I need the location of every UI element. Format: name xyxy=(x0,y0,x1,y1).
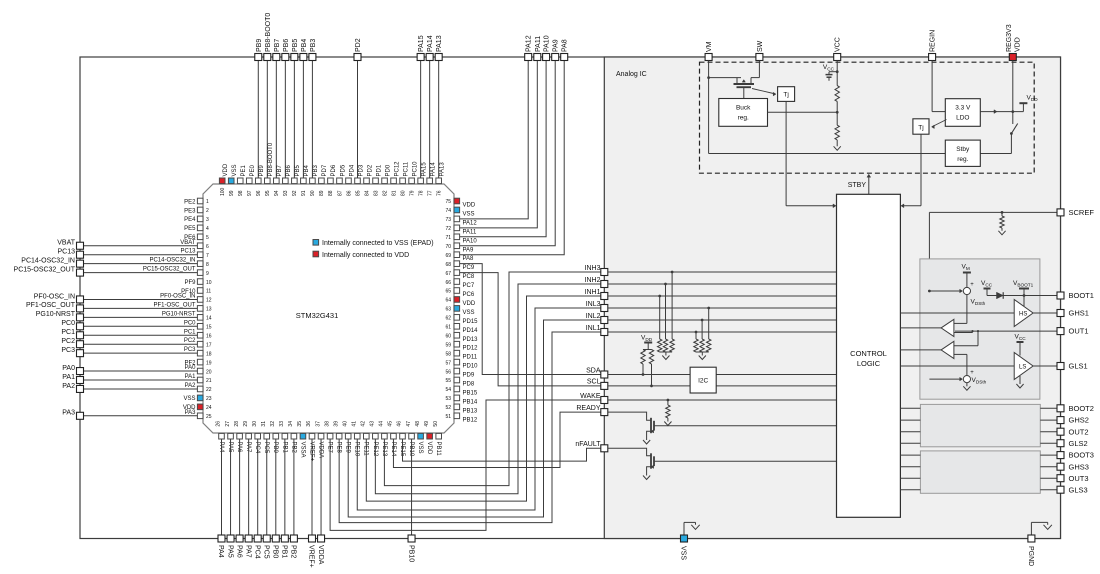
svg-text:88: 88 xyxy=(328,190,334,196)
svg-text:HS: HS xyxy=(1019,311,1027,317)
svg-text:PD2: PD2 xyxy=(367,164,373,176)
wire PC3 xyxy=(84,352,198,354)
svg-text:+: + xyxy=(970,282,974,288)
svg-text:60: 60 xyxy=(445,333,451,339)
svg-text:51: 51 xyxy=(445,414,451,420)
terminal PA6 bottom xyxy=(236,535,243,542)
terminal VDDA bottom xyxy=(318,535,325,542)
CONTROL LOGIC block xyxy=(837,194,901,517)
svg-text:VBAT: VBAT xyxy=(57,240,75,247)
svg-text:PG10-NRST: PG10-NRST xyxy=(36,311,76,318)
terminal READY xyxy=(601,409,608,416)
svg-text:PE7: PE7 xyxy=(327,442,333,454)
svg-text:86: 86 xyxy=(346,190,352,196)
svg-text:26: 26 xyxy=(216,421,222,427)
svg-text:PA14: PA14 xyxy=(430,162,436,177)
wire buck feedback xyxy=(768,111,838,113)
svg-text:reg.: reg. xyxy=(957,156,968,163)
svg-text:PC2: PC2 xyxy=(184,338,196,344)
svg-text:49: 49 xyxy=(424,421,430,427)
wire GLS1 xyxy=(1033,365,1057,367)
terminal PC13 left xyxy=(77,251,84,258)
svg-text:81: 81 xyxy=(391,190,397,196)
svg-text:nFAULT: nFAULT xyxy=(575,441,601,448)
wire WAKE internal xyxy=(608,399,837,401)
terminal REG3V3 VDD xyxy=(1009,54,1016,61)
svg-text:3.3 V: 3.3 V xyxy=(955,105,971,112)
terminal INH3 xyxy=(601,269,608,276)
svg-text:PE1: PE1 xyxy=(241,164,247,176)
svg-text:17: 17 xyxy=(206,342,212,348)
thermal sensor Tj1 xyxy=(778,87,795,102)
terminal PA10 top xyxy=(543,54,550,61)
resistor SCREF xyxy=(1001,211,1004,214)
svg-text:PB10: PB10 xyxy=(407,545,414,562)
svg-text:PB8-BOOT0: PB8-BOOT0 xyxy=(268,142,274,176)
wire PA6 riser xyxy=(239,439,241,535)
terminal OUT1 xyxy=(1057,328,1064,335)
svg-text:READY: READY xyxy=(576,405,600,412)
terminal PC2 left xyxy=(77,341,84,348)
svg-text:PE3: PE3 xyxy=(184,208,196,214)
svg-text:94: 94 xyxy=(274,190,280,196)
svg-text:Buck: Buck xyxy=(736,105,751,112)
svg-text:36: 36 xyxy=(306,421,312,427)
wire SCREF net xyxy=(929,211,1057,213)
wire PA9 route xyxy=(460,61,555,246)
terminal PB0 bottom xyxy=(272,535,279,542)
svg-text:38: 38 xyxy=(324,421,330,427)
comparator LS VDS monitor xyxy=(941,341,954,358)
svg-text:PA2: PA2 xyxy=(62,383,75,390)
svg-text:STBY: STBY xyxy=(848,182,867,189)
svg-text:PD5: PD5 xyxy=(340,164,346,176)
svg-text:PB0: PB0 xyxy=(272,545,279,558)
terminal OUT3 xyxy=(1057,475,1064,482)
svg-text:90: 90 xyxy=(310,190,316,196)
svg-text:PB10: PB10 xyxy=(408,442,414,457)
wire READY route xyxy=(393,412,600,467)
driver LS xyxy=(1014,353,1033,380)
terminal GHS2 xyxy=(1057,417,1064,424)
wire GHS2 to terminal xyxy=(1040,419,1057,421)
wire OUT2 to terminal xyxy=(1040,431,1057,433)
svg-text:PC7: PC7 xyxy=(463,283,475,289)
svg-text:42: 42 xyxy=(361,421,367,427)
svg-text:14: 14 xyxy=(206,316,212,322)
terminal GHS3 xyxy=(1057,463,1064,470)
terminal PGND xyxy=(1030,522,1032,535)
svg-text:VSS: VSS xyxy=(183,396,195,402)
svg-text:Tj: Tj xyxy=(783,92,788,99)
svg-text:PD15: PD15 xyxy=(463,319,479,325)
resistor VCC divider lower xyxy=(835,125,839,140)
wire SDA from PC9 xyxy=(460,264,601,375)
current source VDSth low xyxy=(963,376,970,383)
svg-text:VDD: VDD xyxy=(1015,37,1022,52)
svg-text:LOGIC: LOGIC xyxy=(857,359,881,368)
svg-text:27: 27 xyxy=(225,421,231,427)
terminal PA7 bottom xyxy=(245,535,252,542)
terminal REGIN xyxy=(929,54,936,61)
svg-text:PA11: PA11 xyxy=(463,229,477,235)
svg-text:PA13: PA13 xyxy=(436,35,443,52)
svg-text:PA6: PA6 xyxy=(236,442,242,454)
svg-text:72: 72 xyxy=(445,226,451,232)
arrow mosfet to Tj1 xyxy=(752,89,774,94)
svg-text:12: 12 xyxy=(206,298,212,304)
svg-text:59: 59 xyxy=(445,342,451,348)
driver block 2 xyxy=(920,404,1040,446)
svg-text:50: 50 xyxy=(433,421,439,427)
svg-text:29: 29 xyxy=(243,421,249,427)
wire PB9 riser xyxy=(257,61,259,179)
svg-text:VBAT: VBAT xyxy=(180,240,196,246)
terminal VM xyxy=(705,54,712,61)
wire PD2 riser xyxy=(357,61,359,179)
wire REG3V3 net with switch xyxy=(1012,61,1014,125)
svg-text:REGIN: REGIN xyxy=(930,30,937,52)
svg-text:PB15: PB15 xyxy=(463,390,478,396)
terminal PB2 bottom xyxy=(290,535,297,542)
svg-text:74: 74 xyxy=(445,208,451,214)
svg-text:56: 56 xyxy=(445,369,451,375)
svg-text:95: 95 xyxy=(265,190,271,196)
svg-text:SDA: SDA xyxy=(586,367,601,374)
wire LDO output xyxy=(980,111,1023,113)
terminal PB3 top xyxy=(309,54,316,61)
svg-text:96: 96 xyxy=(256,190,262,196)
svg-text:OUT1: OUT1 xyxy=(1069,327,1089,336)
diode bootstrap xyxy=(997,292,1004,299)
svg-text:97: 97 xyxy=(247,190,253,196)
svg-text:46: 46 xyxy=(397,421,403,427)
wire WAKE route xyxy=(330,400,601,530)
wire PA10 route xyxy=(460,61,546,237)
svg-text:PF1-OSC_OUT: PF1-OSC_OUT xyxy=(153,302,195,308)
ground READY transistor xyxy=(643,440,650,444)
wire HS input xyxy=(900,312,1014,314)
svg-text:CONTROL: CONTROL xyxy=(850,349,887,358)
terminal PC3 left xyxy=(77,350,84,357)
terminal PD2 top xyxy=(354,54,361,61)
wire PA15 riser xyxy=(420,61,422,179)
svg-text:WAKE: WAKE xyxy=(580,393,601,400)
wire INL2 route xyxy=(348,320,601,517)
wire REGIN net xyxy=(931,61,933,112)
svg-text:92: 92 xyxy=(292,190,298,196)
svg-text:Stby: Stby xyxy=(956,146,970,153)
svg-text:45: 45 xyxy=(388,421,394,427)
terminal PB8-BOOT0 top xyxy=(264,54,271,61)
svg-text:PB5: PB5 xyxy=(295,164,301,176)
svg-text:PC14-OSC32_IN: PC14-OSC32_IN xyxy=(149,258,195,264)
svg-text:PB14: PB14 xyxy=(463,399,478,405)
wire BOOT3 stub from control logic xyxy=(900,454,920,456)
transistor nFAULT open-drain xyxy=(608,448,651,456)
terminal PC4 bottom xyxy=(254,535,261,542)
wire PA14 riser xyxy=(429,61,431,179)
svg-text:PC12: PC12 xyxy=(394,161,400,177)
svg-text:VREF+: VREF+ xyxy=(308,442,314,462)
svg-text:PE11: PE11 xyxy=(363,442,369,457)
wire INH3 internal xyxy=(608,271,837,273)
svg-text:VCC: VCC xyxy=(835,37,842,52)
MCU left pads pins 1-25 xyxy=(197,198,203,204)
terminal PA1 left xyxy=(77,377,84,384)
svg-text:39: 39 xyxy=(333,421,339,427)
svg-text:63: 63 xyxy=(445,307,451,313)
wire PA1 xyxy=(84,379,198,381)
svg-text:PA4: PA4 xyxy=(217,545,224,558)
ground LS driver xyxy=(1019,376,1021,384)
wire GHS2 stub from control logic xyxy=(900,419,920,421)
svg-text:VDD: VDD xyxy=(223,163,229,176)
svg-text:VSS: VSS xyxy=(232,164,238,176)
svg-text:+: + xyxy=(970,370,974,376)
svg-text:64: 64 xyxy=(445,298,451,304)
svg-text:OUT2: OUT2 xyxy=(1069,427,1089,436)
svg-text:VSS: VSS xyxy=(680,546,687,560)
Stby regulator xyxy=(945,140,980,166)
svg-text:69: 69 xyxy=(445,253,451,259)
wire PA0 xyxy=(84,370,198,372)
svg-text:PA15: PA15 xyxy=(418,35,425,52)
wire STBY xyxy=(868,176,870,194)
svg-text:PE12: PE12 xyxy=(372,442,378,457)
current source VDSth high xyxy=(963,287,970,294)
svg-text:VSSA: VSSA xyxy=(299,442,305,458)
terminal OUT2 xyxy=(1057,428,1064,435)
resistor INL3 pulldown xyxy=(707,307,710,310)
resistor INH1 pulldown xyxy=(658,295,661,298)
wire GLS2 to terminal xyxy=(1040,442,1057,444)
wire INH2 route xyxy=(375,284,600,494)
wire PB4 riser xyxy=(302,61,304,179)
svg-text:VDD: VDD xyxy=(426,442,432,455)
svg-text:PA7: PA7 xyxy=(245,442,251,454)
svg-text:PD0: PD0 xyxy=(385,164,391,176)
svg-text:PB0: PB0 xyxy=(272,442,278,454)
wire SCL internal xyxy=(608,385,837,387)
svg-text:PC4: PC4 xyxy=(253,545,260,559)
ground INL pulldowns xyxy=(696,351,709,353)
svg-text:24: 24 xyxy=(206,405,212,411)
svg-text:SCL: SCL xyxy=(587,379,601,386)
svg-text:GLS2: GLS2 xyxy=(1069,439,1088,448)
resistor VCC divider upper xyxy=(835,86,839,102)
svg-text:PD11: PD11 xyxy=(463,355,478,361)
legend VDD xyxy=(313,251,319,257)
terminal VREF+ bottom xyxy=(309,535,316,542)
resistor SDA pullup xyxy=(641,350,645,365)
svg-text:PD2: PD2 xyxy=(355,38,362,52)
wire VDDA riser xyxy=(320,439,322,535)
terminal INL3 xyxy=(601,305,608,312)
wire SW net xyxy=(758,61,760,78)
terminal INH1 xyxy=(601,293,608,300)
svg-text:PC5: PC5 xyxy=(263,442,269,454)
svg-text:LS: LS xyxy=(1019,364,1026,370)
svg-text:32: 32 xyxy=(270,421,276,427)
svg-text:76: 76 xyxy=(436,190,442,196)
driver block 1 xyxy=(920,259,1040,399)
thermal sensor Tj2 xyxy=(913,119,929,134)
svg-text:2: 2 xyxy=(206,208,209,214)
svg-text:28: 28 xyxy=(234,421,240,427)
svg-text:PC0: PC0 xyxy=(184,320,196,326)
resistor SCL pullup xyxy=(649,350,653,365)
wire INH1 internal xyxy=(608,295,837,297)
svg-text:68: 68 xyxy=(445,262,451,268)
svg-text:PA8: PA8 xyxy=(562,39,569,52)
svg-text:INL1: INL1 xyxy=(586,325,601,332)
svg-text:PA7: PA7 xyxy=(244,545,251,558)
svg-text:1: 1 xyxy=(206,199,209,205)
wire SCREF to VDSth low xyxy=(929,378,959,380)
MCU bottom pads pins 26-50 xyxy=(219,433,225,439)
terminal GLS2 xyxy=(1057,440,1064,447)
svg-text:PC13: PC13 xyxy=(57,249,75,256)
svg-text:Tj: Tj xyxy=(918,124,923,131)
wire PG10-NRST xyxy=(84,316,198,318)
terminal WAKE xyxy=(601,397,608,404)
legend VSS EPAD xyxy=(313,240,319,246)
svg-text:SCREF: SCREF xyxy=(1069,208,1095,217)
svg-text:VDDA: VDDA xyxy=(317,442,323,459)
svg-text:4: 4 xyxy=(206,226,209,232)
svg-text:PB1: PB1 xyxy=(281,545,288,558)
resistor INL1 pulldown xyxy=(695,331,698,334)
ground PGND symbol xyxy=(1044,525,1052,530)
svg-text:PE9: PE9 xyxy=(345,442,351,454)
MCU STM32G431 body xyxy=(203,184,454,433)
svg-text:INL3: INL3 xyxy=(586,301,601,308)
transistor buck high-side switch xyxy=(736,78,738,83)
wire PA2 xyxy=(84,388,198,390)
wire VDSth high to comparator xyxy=(966,295,968,324)
svg-text:PD4: PD4 xyxy=(349,164,355,176)
wire PC14-OSC32_IN xyxy=(84,263,198,265)
svg-text:61: 61 xyxy=(445,325,451,331)
svg-text:PA3: PA3 xyxy=(185,410,197,416)
svg-text:47: 47 xyxy=(406,421,412,427)
svg-text:PB13: PB13 xyxy=(463,408,478,414)
svg-text:67: 67 xyxy=(445,271,451,277)
svg-text:INL2: INL2 xyxy=(586,313,601,320)
wire comparator LS input from VDSth low xyxy=(954,353,967,355)
terminal PC15-OSC32_OUT left xyxy=(77,269,84,276)
svg-text:PE15: PE15 xyxy=(399,442,405,457)
svg-text:9: 9 xyxy=(206,271,209,277)
terminal PF1-OSC_OUT left xyxy=(77,305,84,312)
wire GLS3 to terminal xyxy=(1040,489,1057,491)
wire PA11 route xyxy=(460,61,538,228)
wire PC5 riser xyxy=(266,439,268,535)
svg-text:PA10: PA10 xyxy=(463,238,478,244)
svg-text:79: 79 xyxy=(409,190,415,196)
svg-text:PB9: PB9 xyxy=(256,39,263,52)
wire Tj2 to control logic xyxy=(920,134,922,206)
svg-text:PC15-OSC32_OUT: PC15-OSC32_OUT xyxy=(143,267,196,273)
svg-text:GHS3: GHS3 xyxy=(1069,462,1089,471)
wire PC13 xyxy=(84,254,198,256)
wire PB6 riser xyxy=(284,61,286,179)
svg-text:52: 52 xyxy=(445,405,451,411)
Buck regulator xyxy=(719,99,768,127)
svg-text:PF0-OSC_IN: PF0-OSC_IN xyxy=(160,293,195,299)
svg-text:PD9: PD9 xyxy=(463,373,475,379)
svg-text:22: 22 xyxy=(206,387,212,393)
svg-text:73: 73 xyxy=(445,217,451,223)
terminal PA11 top xyxy=(534,54,541,61)
svg-text:8: 8 xyxy=(206,262,209,268)
terminal PA0 left xyxy=(77,368,84,375)
svg-text:PF1-OSC_OUT: PF1-OSC_OUT xyxy=(26,302,76,309)
resistor INL2 pulldown xyxy=(701,319,704,322)
svg-text:PB2: PB2 xyxy=(290,545,297,558)
wire PF1-OSC_OUT xyxy=(84,307,198,309)
svg-text:3: 3 xyxy=(206,217,209,223)
svg-text:PC8: PC8 xyxy=(463,274,475,280)
wire INL3 route xyxy=(357,308,601,510)
svg-text:PGND: PGND xyxy=(1027,546,1034,566)
terminal BOOT1 xyxy=(1057,292,1064,299)
svg-text:PC11: PC11 xyxy=(403,161,409,176)
svg-text:PC1: PC1 xyxy=(184,329,196,335)
svg-text:10: 10 xyxy=(206,280,212,286)
svg-text:PB3: PB3 xyxy=(310,39,317,52)
wire OUT3 stub from control logic xyxy=(900,477,920,479)
svg-text:VDD: VDD xyxy=(463,301,476,307)
svg-text:PC3: PC3 xyxy=(61,347,75,354)
svg-text:PC5: PC5 xyxy=(262,545,269,559)
svg-text:33: 33 xyxy=(279,421,285,427)
wire INL1 internal xyxy=(608,331,837,333)
svg-text:PA12: PA12 xyxy=(526,35,533,52)
I2C block xyxy=(690,367,716,393)
wire PB2 riser xyxy=(293,439,295,535)
svg-text:15: 15 xyxy=(206,325,212,331)
wire BOOT1 net xyxy=(1003,295,1057,297)
svg-text:PA8: PA8 xyxy=(463,256,475,262)
svg-text:87: 87 xyxy=(337,190,343,196)
svg-text:16: 16 xyxy=(206,333,212,339)
svg-text:BOOT3: BOOT3 xyxy=(1069,451,1094,460)
MCU right pads pins 51-75 xyxy=(454,413,460,419)
svg-text:PA3: PA3 xyxy=(62,410,75,417)
wire INL3 internal xyxy=(608,307,837,309)
wire GHS1 xyxy=(1033,312,1057,314)
ground SCREF resistor xyxy=(998,231,1005,235)
svg-text:20: 20 xyxy=(206,369,212,375)
svg-text:57: 57 xyxy=(445,360,451,366)
svg-text:PA5: PA5 xyxy=(226,545,233,558)
terminal VCC xyxy=(834,54,841,61)
svg-text:PF9: PF9 xyxy=(184,280,196,286)
svg-text:89: 89 xyxy=(319,190,325,196)
wire INH2 internal xyxy=(608,283,837,285)
wire PA5 riser xyxy=(230,439,232,535)
MCU top pads pins 100-76 xyxy=(219,178,225,184)
svg-text:53: 53 xyxy=(445,396,451,402)
svg-text:SW: SW xyxy=(757,40,764,52)
svg-text:PD7: PD7 xyxy=(322,164,328,176)
svg-text:PC14-OSC32_IN: PC14-OSC32_IN xyxy=(21,257,75,264)
svg-text:PB11: PB11 xyxy=(435,442,441,457)
svg-text:13: 13 xyxy=(206,307,212,313)
svg-text:82: 82 xyxy=(382,190,388,196)
